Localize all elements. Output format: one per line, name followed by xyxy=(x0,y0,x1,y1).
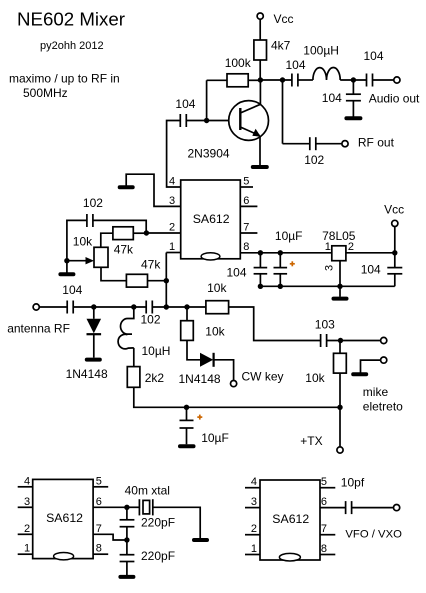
svg-text:40m xtal: 40m xtal xyxy=(125,484,170,498)
ground emitter xyxy=(253,165,267,169)
pin 3 U2 xyxy=(18,496,33,508)
pin 1 U2 xyxy=(18,543,33,555)
plus sign TX orange xyxy=(197,415,202,420)
svg-text:5: 5 xyxy=(243,176,249,188)
svg-text:220pF: 220pF xyxy=(141,515,175,529)
svg-text:py2ohh 2012: py2ohh 2012 xyxy=(40,40,104,52)
ground audio shunt xyxy=(346,116,360,120)
svg-text:4k7: 4k7 xyxy=(271,39,291,53)
svg-text:10k: 10k xyxy=(205,325,225,339)
wire base node up xyxy=(206,80,208,120)
pin 7 U2 xyxy=(93,523,127,540)
node Vcc2 xyxy=(392,250,397,255)
wire ground to pin 3 xyxy=(126,174,181,206)
wire antenna line 2 xyxy=(152,306,206,308)
terminal Audio out xyxy=(369,77,420,105)
svg-text:10k: 10k xyxy=(305,371,325,385)
svg-text:5: 5 xyxy=(321,476,327,488)
svg-text:7: 7 xyxy=(96,523,102,535)
wire cap to inductor xyxy=(298,79,313,81)
svg-text:500MHz: 500MHz xyxy=(23,86,68,100)
wire 78L05 pin3 xyxy=(339,261,341,287)
transistor Q1 2N3904 xyxy=(188,101,269,161)
wire RF branch down xyxy=(282,80,284,144)
terminal Vcc top xyxy=(257,12,293,26)
capacitor 104 pin8 xyxy=(227,253,268,286)
svg-text:3: 3 xyxy=(169,195,175,207)
svg-text:47k: 47k xyxy=(141,257,161,271)
wire 10k mike to rail xyxy=(339,373,341,407)
wire pot bottom to 47k lower xyxy=(101,267,126,280)
wire 78L05 out xyxy=(346,252,395,254)
svg-text:+TX: +TX xyxy=(300,434,322,448)
pin 5 U2 xyxy=(93,475,108,487)
wire cap to RF terminal xyxy=(316,143,342,145)
svg-text:10k: 10k xyxy=(73,234,93,248)
capacitor 102 antenna xyxy=(141,301,161,327)
wire 100k to collector node xyxy=(248,79,260,81)
svg-text:antenna RF: antenna RF xyxy=(7,322,70,336)
capacitor 10uF TX electrolytic xyxy=(180,407,229,445)
svg-text:maximo / up to RF in: maximo / up to RF in xyxy=(9,72,120,86)
op-amp U1 SA612 xyxy=(181,180,241,260)
wire 47k to pin2 wire xyxy=(133,232,146,234)
wire pin 8 rail xyxy=(240,252,331,254)
diode D1 1N4148 antenna xyxy=(66,307,108,381)
node 10uF rail xyxy=(184,405,189,410)
node pin1 line xyxy=(164,304,169,309)
pin 6 U3 xyxy=(320,496,346,508)
ground 78L05 xyxy=(334,297,347,301)
svg-text:102: 102 xyxy=(141,313,161,327)
inductor 100uH xyxy=(303,44,340,81)
svg-text:4: 4 xyxy=(169,176,175,188)
wire pin1 stub xyxy=(166,252,180,254)
ground mike xyxy=(353,372,366,376)
wire shunt to ground xyxy=(352,101,354,117)
svg-text:2k2: 2k2 xyxy=(145,371,165,385)
svg-text:3: 3 xyxy=(324,265,336,271)
svg-text:eletreto: eletreto xyxy=(363,399,403,413)
inductor 10uH xyxy=(118,307,170,358)
svg-text:1: 1 xyxy=(251,543,257,555)
wire inductor to 2k2 xyxy=(133,348,135,367)
resistor 10k cw xyxy=(181,321,226,341)
svg-text:SA612: SA612 xyxy=(193,212,230,226)
svg-text:10pf: 10pf xyxy=(341,475,365,489)
svg-text:SA612: SA612 xyxy=(272,512,309,526)
svg-text:1N4148: 1N4148 xyxy=(179,372,221,386)
node 10k branch xyxy=(184,304,189,309)
svg-text:8: 8 xyxy=(243,241,249,253)
terminal +TX xyxy=(300,434,343,453)
svg-text:3: 3 xyxy=(24,496,30,508)
terminal CW key xyxy=(231,369,284,386)
node 220pF junction xyxy=(124,537,129,542)
svg-text:6: 6 xyxy=(321,496,327,508)
ground D1 xyxy=(87,358,100,362)
resistor 2k2 xyxy=(127,367,164,388)
svg-text:3: 3 xyxy=(251,496,257,508)
terminal Vcc2 xyxy=(384,203,404,227)
svg-text:8: 8 xyxy=(96,543,102,555)
svg-text:104: 104 xyxy=(62,283,82,297)
svg-text:mike: mike xyxy=(363,385,389,399)
wire ground rail xyxy=(260,285,394,287)
svg-text:VFO / VXO: VFO / VXO xyxy=(345,528,402,540)
svg-text:47k: 47k xyxy=(114,242,134,256)
wire wiper to ground xyxy=(66,261,68,273)
node rail 10uF xyxy=(278,284,283,289)
svg-text:2: 2 xyxy=(24,523,30,535)
capacitor 10pf xyxy=(341,475,365,514)
crystal 40m xtal xyxy=(125,484,170,516)
svg-text:Vcc: Vcc xyxy=(274,12,294,26)
terminal mike2 xyxy=(381,357,387,363)
svg-text:1N4148: 1N4148 xyxy=(66,367,108,381)
pin 5 U3 xyxy=(320,476,335,488)
ground xtal xyxy=(194,538,207,542)
node mike xyxy=(338,338,343,343)
ground wiper xyxy=(60,272,73,276)
wire to Vcc2 xyxy=(394,227,396,253)
wire antenna to cap xyxy=(39,306,67,308)
wire 10k elbow down xyxy=(229,307,321,341)
wire xtal to ground xyxy=(153,507,200,538)
wire 2k2 to TX rail xyxy=(134,387,340,407)
svg-text:10µH: 10µH xyxy=(142,344,171,358)
svg-text:10k: 10k xyxy=(207,281,227,295)
potentiometer 10k xyxy=(67,234,108,267)
ground 220pF xyxy=(120,575,133,579)
pin 8 U2 xyxy=(93,543,108,555)
capacitor 104 Vcc2 xyxy=(361,253,403,286)
node 10uF rail2 xyxy=(278,250,283,255)
svg-text:7: 7 xyxy=(243,222,249,234)
svg-text:220pF: 220pF xyxy=(141,549,175,563)
node rail 104 xyxy=(258,284,263,289)
capacitor 102 RF out xyxy=(304,137,324,167)
wire 47k left elbow to pot xyxy=(101,233,113,247)
pin 7 U1 xyxy=(240,222,257,234)
pin 2 U3 xyxy=(245,523,260,535)
terminal VFO xyxy=(345,505,402,541)
node diode xyxy=(91,304,96,309)
node pin2 xyxy=(144,230,149,235)
svg-text:104: 104 xyxy=(175,97,195,111)
pin 3 U3 xyxy=(245,496,260,508)
svg-text:100µH: 100µH xyxy=(303,44,339,58)
svg-text:5: 5 xyxy=(96,475,102,487)
node RF branch xyxy=(280,77,285,82)
regulator 78L05 xyxy=(322,229,356,271)
resistor 100k xyxy=(225,56,252,87)
capacitor 104 audio shunt xyxy=(322,91,361,105)
ground pin3 xyxy=(120,185,133,189)
wire pin1 vertical xyxy=(165,253,167,308)
node 47k pin1 xyxy=(164,278,169,283)
wire 102 right elbow to pin2 xyxy=(93,220,146,233)
svg-text:8: 8 xyxy=(321,543,327,555)
svg-text:2: 2 xyxy=(348,241,354,253)
wire base xyxy=(186,120,240,122)
node rail 78L05 xyxy=(337,284,342,289)
resistor 47k upper xyxy=(113,227,134,257)
wire 10k node to box xyxy=(186,307,188,321)
wire rail to ground xyxy=(339,286,341,297)
svg-text:104: 104 xyxy=(286,58,306,72)
svg-text:104: 104 xyxy=(227,266,247,280)
svg-text:7: 7 xyxy=(321,523,327,535)
wire pin 2 xyxy=(146,232,181,234)
resistor 10k mike xyxy=(305,353,346,385)
svg-text:1: 1 xyxy=(169,241,175,253)
op-amp U3 SA612 xyxy=(260,480,320,561)
pin 5 U1 xyxy=(240,176,253,188)
plus sign pin8 orange xyxy=(290,261,295,266)
wire to 100k xyxy=(207,79,227,81)
svg-text:Audio out: Audio out xyxy=(369,91,420,105)
svg-text:4: 4 xyxy=(251,476,257,488)
wire collector xyxy=(259,80,261,104)
node TX xyxy=(337,405,342,410)
pin 2 U2 xyxy=(18,523,33,535)
wire node to 10k mike xyxy=(339,341,341,354)
wire 4k7 to node xyxy=(259,60,261,80)
wire audio shunt down xyxy=(352,80,354,94)
wire 102 left elbow xyxy=(67,220,87,260)
svg-text:102: 102 xyxy=(304,153,324,167)
capacitor 220pF upper xyxy=(120,507,175,540)
node collector xyxy=(258,77,263,82)
resistor 10k series xyxy=(206,281,229,314)
svg-text:10µF: 10µF xyxy=(201,431,229,445)
svg-text:102: 102 xyxy=(83,196,103,210)
wire inductor to node3 xyxy=(340,79,366,81)
node inductor xyxy=(131,304,136,309)
wire cap left elbow down to pin4 xyxy=(167,121,181,188)
wire mike2 to ground xyxy=(361,360,381,373)
wire node to node2 xyxy=(260,79,292,81)
svg-text:CW key: CW key xyxy=(242,369,284,383)
wire RF branch right xyxy=(283,143,310,145)
capacitor 104 collector out xyxy=(286,58,306,87)
svg-text:100k: 100k xyxy=(225,56,252,70)
svg-text:2N3904: 2N3904 xyxy=(188,146,230,160)
pin 8 U3 xyxy=(320,543,335,555)
wire emitter xyxy=(259,136,261,165)
svg-text:2: 2 xyxy=(169,222,175,234)
wire cap to audio terminal xyxy=(373,79,394,81)
node audio xyxy=(351,77,356,82)
capacitor 10uF pin8 electrolytic xyxy=(274,229,303,286)
wire diode to CW key xyxy=(214,360,234,381)
capacitor 220pF lower xyxy=(120,540,175,575)
pin 4 U3 xyxy=(245,476,260,488)
svg-text:104: 104 xyxy=(364,49,384,63)
svg-text:1: 1 xyxy=(325,241,331,253)
svg-text:SA612: SA612 xyxy=(46,511,83,525)
svg-text:6: 6 xyxy=(96,496,102,508)
svg-text:104: 104 xyxy=(361,263,381,277)
svg-text:6: 6 xyxy=(243,195,249,207)
wire Vcc to R 4k7 xyxy=(259,19,261,40)
node base xyxy=(204,118,209,123)
capacitor 104 base xyxy=(175,97,195,127)
terminal mike1 xyxy=(381,337,387,343)
wire to xtal xyxy=(127,506,139,508)
label mike eletreto xyxy=(363,385,403,413)
pin 7 U3 xyxy=(320,523,335,535)
svg-text:4: 4 xyxy=(24,475,30,487)
node wiper xyxy=(64,258,69,263)
pin 6 U2 xyxy=(93,496,127,508)
svg-text:103: 103 xyxy=(315,317,335,331)
diode D2 1N4148 cw xyxy=(179,353,221,386)
wire antenna line 1 xyxy=(73,306,146,308)
pin 1 U3 xyxy=(245,543,260,555)
op-amp U2 SA612 xyxy=(33,479,93,560)
pin 4 U2 xyxy=(18,475,33,487)
capacitor 104 audio series xyxy=(364,49,384,87)
wire to TX terminal xyxy=(339,407,341,447)
terminal antenna xyxy=(7,304,70,336)
wire 10pf to VFO terminal xyxy=(352,507,394,509)
pin 6 U1 xyxy=(240,195,257,207)
wire 47k lower to node xyxy=(148,280,167,282)
terminal RF out xyxy=(342,135,395,149)
svg-text:104: 104 xyxy=(322,91,342,105)
ground 10uF TX xyxy=(180,444,194,448)
resistor 47k lower xyxy=(126,257,161,287)
svg-text:NE602 Mixer: NE602 Mixer xyxy=(17,9,125,30)
resistor 4k7 xyxy=(254,39,291,61)
svg-text:1: 1 xyxy=(24,543,30,555)
node 104 rail xyxy=(258,250,263,255)
svg-text:2: 2 xyxy=(251,523,257,535)
svg-text:Vcc: Vcc xyxy=(384,203,404,217)
svg-text:RF out: RF out xyxy=(358,135,395,149)
wire 103 to mike terminal xyxy=(327,340,381,342)
node xtal xyxy=(124,505,129,510)
svg-text:10µF: 10µF xyxy=(275,229,303,243)
wire 10k to diode xyxy=(187,340,200,359)
capacitor 102 feedback xyxy=(83,196,103,227)
capacitor 104 antenna xyxy=(62,283,82,314)
capacitor 103 xyxy=(315,317,335,347)
